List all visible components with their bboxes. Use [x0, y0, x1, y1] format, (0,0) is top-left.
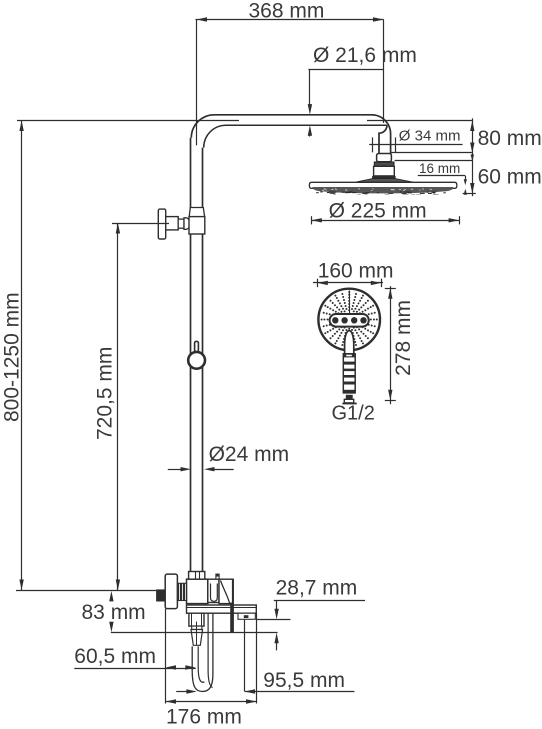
reference line at valve center	[112, 223, 169, 225]
slider ring on riser	[188, 341, 205, 368]
arrow down 83 mm	[109, 622, 113, 633]
dimension label 160 mm	[318, 259, 394, 282]
dimension label 800-1250 mm	[1, 292, 24, 422]
arrow up 28,7 mm	[274, 633, 278, 651]
dimension line 95,5 mm left arrow	[176, 689, 197, 693]
svg-text:Ø24 mm: Ø24 mm	[209, 443, 290, 466]
hose inner-left outline	[198, 646, 204, 682]
hand shower button capsule	[330, 314, 369, 327]
dimension label 83 mm	[82, 601, 146, 624]
dimension label diameter 24 mm	[209, 443, 290, 466]
reference line bracket bottom	[256, 619, 290, 621]
hand shower base flare	[342, 403, 356, 405]
hand shower spray nozzle dots	[321, 291, 378, 348]
dimension label 720,5 mm	[94, 347, 117, 440]
mixer handle ribbed stem	[177, 583, 186, 600]
mixer body	[187, 579, 208, 603]
svg-text:720,5 mm: 720,5 mm	[94, 347, 117, 440]
spout center line	[196, 622, 198, 646]
connector dark collar	[374, 162, 394, 166]
mounting boss	[355, 179, 414, 183]
hand shower buttons	[332, 317, 367, 323]
svg-text:Ø 225 mm: Ø 225 mm	[329, 199, 427, 222]
hand shower handle bulb	[345, 330, 354, 354]
reference line disc bottom	[463, 193, 476, 195]
hose inner-right outline	[208, 613, 213, 687]
dimension line 95,5 mm	[245, 689, 355, 693]
hose outer outline	[192, 613, 213, 691]
dimension label diameter 225 mm	[329, 199, 427, 222]
reference line mixer center	[16, 590, 156, 592]
dimension label 28,7 mm	[276, 577, 358, 600]
dimension label 278 mm	[392, 300, 415, 376]
dimension line 720,5 mm	[116, 223, 120, 590]
svg-text:Ø 34 mm: Ø 34 mm	[399, 128, 461, 145]
spout step	[192, 626, 202, 629]
leader underline 28,7 mm	[274, 600, 365, 602]
dimension label 60,5 mm	[74, 645, 156, 668]
mixer cartridge cap	[211, 584, 218, 602]
svg-text:60,5 mm: 60,5 mm	[74, 645, 156, 668]
extension line right of 368 mm	[383, 20, 385, 124]
hand shower grip ribs	[343, 354, 355, 393]
thread label G1/2	[332, 403, 375, 425]
svg-text:80 mm: 80 mm	[478, 127, 542, 150]
mixer right section	[208, 579, 219, 602]
dimension line 176 mm	[166, 699, 257, 703]
dimension label 60 mm	[478, 166, 542, 189]
dimension label 176 mm	[166, 706, 242, 729]
connector dark ring	[372, 176, 396, 179]
disc spray face speckle	[313, 187, 454, 195]
svg-text:160 mm: 160 mm	[318, 259, 394, 282]
top reference line	[17, 120, 239, 122]
leader underline 21,6 mm	[308, 69, 383, 71]
arrow down to pipe top 21,6	[308, 70, 312, 115]
dimension label 16 mm	[419, 161, 460, 176]
dimension label 368 mm	[249, 0, 325, 23]
arrow down 28,7 mm	[274, 600, 278, 619]
extension tick right 34 mm	[395, 137, 397, 152]
svg-text:60 mm: 60 mm	[478, 166, 542, 189]
spout cone	[191, 630, 203, 646]
svg-text:G1/2: G1/2	[332, 403, 375, 425]
dimension line 278 mm	[385, 286, 396, 404]
arrow up 83 mm	[109, 591, 113, 602]
mounting plate	[187, 605, 257, 613]
svg-text:95,5 mm: 95,5 mm	[263, 669, 345, 692]
mixer union collar	[189, 572, 205, 580]
reference line flange top	[395, 160, 473, 162]
dimension label diameter 34 mm	[399, 128, 461, 145]
dimension line 800-1250 mm	[19, 120, 23, 590]
hand shower face circle	[318, 289, 380, 351]
diverter valve with knob	[158, 208, 205, 240]
extension line 95,5 mm	[244, 619, 246, 691]
arrow down 16 mm	[464, 176, 467, 185]
leader underline 16 mm	[418, 175, 466, 177]
svg-text:83 mm: 83 mm	[82, 601, 146, 624]
dimension line 60,5 mm	[74, 665, 196, 669]
reference line nut bottom	[391, 152, 473, 154]
svg-text:176 mm: 176 mm	[166, 706, 242, 729]
svg-text:278 mm: 278 mm	[392, 300, 415, 376]
extension line right 176 mm	[256, 613, 258, 703]
arrow right to riser left edge	[168, 467, 191, 471]
dimension line 368 mm	[196, 17, 384, 21]
arrow up 16 mm	[464, 189, 467, 195]
hand shower grip outline	[343, 354, 355, 393]
dimension label 80 mm	[478, 127, 542, 150]
hand shower fitting	[344, 399, 353, 403]
connector nut	[377, 154, 392, 162]
reference line spout level	[111, 632, 278, 634]
mixer handle flange	[165, 574, 177, 609]
riser pipe right edge	[202, 148, 204, 572]
dimension line 80-60 mm	[470, 118, 474, 196]
extension line left of 368 mm	[196, 20, 198, 146]
dimension label 95,5 mm	[263, 669, 345, 692]
mixer handle dark end	[156, 589, 165, 601]
shower arm pipe arch	[191, 115, 390, 154]
extension line left 176 mm	[165, 609, 167, 704]
holder bar	[230, 603, 234, 633]
spout union nut	[189, 613, 204, 626]
connector white band	[374, 166, 395, 176]
arrow up to pipe bottom 21,6	[308, 125, 312, 136]
reference line pipe top right	[367, 120, 472, 122]
svg-text:28,7 mm: 28,7 mm	[276, 577, 358, 600]
leader underline 34 mm	[369, 144, 462, 146]
riser pipe left edge	[190, 138, 192, 572]
dimension line 160 mm	[313, 279, 383, 287]
hand shower lower dark block	[346, 395, 353, 400]
mixer top stub	[216, 574, 219, 579]
dimension line 225 mm	[311, 216, 460, 224]
svg-text:Ø 21,6 mm: Ø 21,6 mm	[313, 44, 417, 67]
arrow left to riser right edge	[204, 467, 234, 471]
hand shower holder	[219, 579, 234, 603]
svg-text:16 mm: 16 mm	[419, 161, 460, 176]
dimension label diameter 21,6 mm	[313, 44, 417, 67]
extension tick left 34 mm	[372, 137, 374, 152]
overhead shower disc	[309, 182, 456, 188]
svg-text:800-1250 mm: 800-1250 mm	[1, 292, 24, 422]
hand shower top center line	[349, 291, 351, 314]
wall bracket	[238, 613, 255, 619]
